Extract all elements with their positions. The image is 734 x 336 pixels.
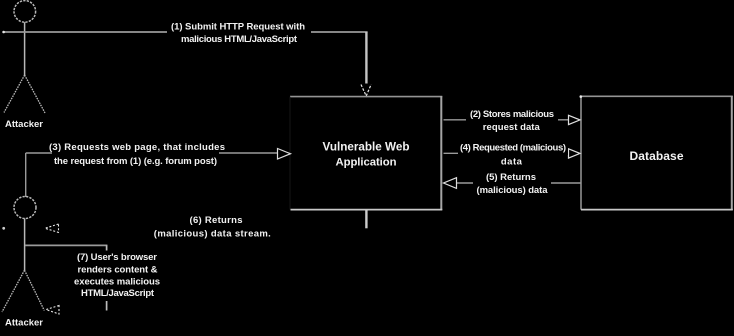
- svg-text:Application: Application: [336, 156, 397, 168]
- label message 4: [458, 141, 568, 168]
- wire message 2: [444, 119, 570, 121]
- svg-text:Attacker: Attacker: [5, 318, 43, 329]
- wire message 7 arm extension: [25, 244, 107, 246]
- label message 5: [473, 172, 551, 197]
- wire message 5: [456, 182, 581, 184]
- label message 3: [49, 142, 225, 168]
- svg-text:request data: request data: [483, 122, 541, 133]
- svg-text:Attacker: Attacker: [5, 119, 43, 130]
- node msg6 start dot: [2, 227, 5, 230]
- node msg1 start cap: [2, 31, 5, 34]
- wire message 6 vertical: [365, 210, 367, 228]
- svg-text:executes malicious: executes malicious: [74, 276, 160, 287]
- svg-text:(7) User's browser: (7) User's browser: [77, 252, 157, 263]
- node DB top-left corner highlight: [580, 95, 583, 98]
- actor Attacker (top): [4, 1, 45, 113]
- svg-text:(3) Requests web page, that in: (3) Requests web page, that includes: [49, 142, 225, 153]
- wire message 4: [444, 152, 570, 154]
- arrowhead message 3: [278, 149, 291, 160]
- label message 1: [167, 20, 311, 45]
- svg-text:(4) Requested (malicious): (4) Requested (malicious): [460, 142, 566, 153]
- arrowhead message 7 (dashed): [46, 306, 59, 315]
- arrowhead message 2: [569, 115, 581, 124]
- box Database: [580, 95, 733, 210]
- svg-text:HTML/JavaScript: HTML/JavaScript: [81, 288, 155, 299]
- wire message 1 vertical: [365, 32, 367, 84]
- svg-text:the request from (1) (e.g. for: the request from (1) (e.g. forum post): [54, 156, 217, 167]
- svg-text:malicious HTML/JavaScript: malicious HTML/JavaScript: [181, 34, 298, 45]
- svg-text:renders content &: renders content &: [78, 264, 158, 275]
- label message 6: [154, 215, 271, 239]
- actor Victim (bottom): [2, 197, 44, 313]
- svg-text:Database: Database: [630, 149, 684, 163]
- box Vulnerable Web Application: [290, 96, 442, 210]
- wire message 3 vertical (victim lifeline top): [25, 153, 27, 197]
- svg-text:(6) Returns: (6) Returns: [190, 215, 243, 226]
- arrowhead message 4: [569, 149, 581, 158]
- label message 7: [71, 251, 162, 302]
- arrowhead message 6 (dashed): [45, 224, 59, 232]
- svg-text:(5) Returns: (5) Returns: [486, 172, 536, 183]
- wire message 1 horizontal: [3, 31, 368, 33]
- svg-text:(1) Submit HTTP Request with: (1) Submit HTTP Request with: [171, 22, 305, 33]
- arrowhead message 1: [361, 84, 371, 96]
- svg-text:data: data: [501, 157, 523, 168]
- arrowhead message 5: [444, 178, 457, 189]
- label message 2: [466, 107, 558, 134]
- svg-text:(malicious) data stream.: (malicious) data stream.: [154, 229, 271, 240]
- svg-text:(malicious) data: (malicious) data: [477, 185, 549, 196]
- wire message 3: [26, 152, 277, 154]
- svg-text:(2) Stores malicious: (2) Stores malicious: [470, 109, 554, 120]
- wire message 7 vertical: [106, 245, 108, 310]
- svg-text:Vulnerable Web: Vulnerable Web: [323, 141, 410, 154]
